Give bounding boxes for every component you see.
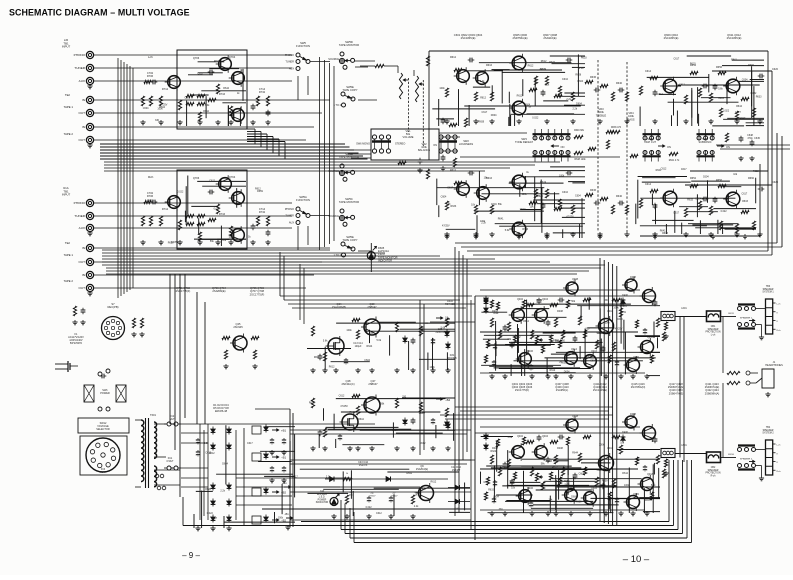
svg-text:Q418: Q418 bbox=[647, 473, 654, 476]
svg-text:C617: C617 bbox=[520, 208, 526, 211]
svg-text:C40: C40 bbox=[320, 491, 325, 493]
svg-text:R716: R716 bbox=[219, 92, 226, 96]
svg-text:330: 330 bbox=[155, 119, 160, 122]
svg-text:5.6k: 5.6k bbox=[204, 442, 209, 445]
svg-text:Q706: Q706 bbox=[193, 56, 200, 60]
svg-text:R640: R640 bbox=[616, 195, 623, 198]
svg-text:2.2k: 2.2k bbox=[573, 107, 578, 110]
svg-text:INDICATOR: INDICATOR bbox=[378, 258, 392, 262]
svg-text:2SB647: 2SB647 bbox=[368, 382, 378, 386]
svg-text:+B1: +B1 bbox=[282, 481, 287, 485]
svg-text:+B1: +B1 bbox=[281, 429, 286, 433]
svg-text:TAPE 2: TAPE 2 bbox=[64, 279, 74, 283]
svg-text:100k: 100k bbox=[439, 87, 445, 90]
svg-text:47/50V: 47/50V bbox=[369, 496, 376, 498]
svg-text:ON: ON bbox=[726, 145, 730, 149]
svg-text:TUNER: TUNER bbox=[74, 214, 85, 218]
svg-text:0.5A/T: 0.5A/T bbox=[100, 471, 107, 474]
svg-text:C612: C612 bbox=[376, 512, 382, 515]
svg-text:0.022: 0.022 bbox=[723, 109, 730, 112]
svg-text:0.5A/T: 0.5A/T bbox=[166, 460, 174, 463]
svg-text:R628: R628 bbox=[147, 200, 153, 203]
svg-text:R633: R633 bbox=[546, 460, 552, 463]
svg-text:SW6 MONO: SW6 MONO bbox=[356, 143, 370, 146]
svg-text:SW10: SW10 bbox=[728, 454, 735, 456]
svg-text:2SC1775(F): 2SC1775(F) bbox=[176, 289, 191, 293]
svg-text:2SC1775(F): 2SC1775(F) bbox=[515, 388, 529, 392]
svg-text:100µF: 100µF bbox=[355, 345, 362, 348]
svg-text:D604: D604 bbox=[576, 102, 582, 105]
svg-text:C612: C612 bbox=[657, 93, 663, 96]
svg-text:2SC945: 2SC945 bbox=[233, 325, 243, 329]
svg-text:R612: R612 bbox=[443, 424, 449, 427]
svg-text:IN: IN bbox=[82, 246, 85, 250]
svg-text:2.2k: 2.2k bbox=[566, 98, 571, 101]
svg-text:2.2k: 2.2k bbox=[545, 83, 550, 86]
svg-text:R633: R633 bbox=[581, 56, 587, 59]
svg-text:RD7.5EB: RD7.5EB bbox=[445, 303, 455, 306]
svg-text:R628: R628 bbox=[586, 356, 592, 359]
svg-text:TAPE MONITOR: TAPE MONITOR bbox=[339, 200, 359, 204]
svg-text:2SC1775(F): 2SC1775(F) bbox=[250, 292, 265, 296]
svg-text:ON: ON bbox=[667, 145, 671, 149]
svg-text:SPEAKER: SPEAKER bbox=[708, 328, 719, 331]
svg-text:D604: D604 bbox=[696, 197, 702, 200]
svg-text:D604: D604 bbox=[645, 499, 651, 502]
svg-text:R706: R706 bbox=[147, 194, 154, 198]
svg-text:Q404: Q404 bbox=[542, 435, 549, 438]
svg-text:47/25V: 47/25V bbox=[566, 216, 574, 219]
svg-text:R659: R659 bbox=[602, 480, 608, 483]
svg-text:R636 470: R636 470 bbox=[611, 127, 622, 129]
svg-text:– 10 –: – 10 – bbox=[623, 554, 650, 565]
svg-text:FUNCTION: FUNCTION bbox=[296, 198, 310, 202]
svg-text:100k: 100k bbox=[430, 366, 436, 369]
svg-text:0.022: 0.022 bbox=[177, 191, 184, 194]
svg-text:C610: C610 bbox=[562, 78, 569, 81]
svg-text:AUX: AUX bbox=[79, 226, 85, 230]
svg-text:R641: R641 bbox=[406, 472, 412, 475]
svg-text:R612: R612 bbox=[480, 96, 486, 99]
svg-text:C604: C604 bbox=[718, 97, 724, 100]
svg-text:C604: C604 bbox=[493, 496, 499, 499]
svg-text:SOURCE: SOURCE bbox=[328, 58, 339, 61]
svg-text:BASS: BASS bbox=[627, 117, 634, 121]
svg-text:C617: C617 bbox=[742, 193, 748, 196]
svg-text:5.6k: 5.6k bbox=[505, 229, 510, 232]
svg-text:Q408: Q408 bbox=[572, 415, 579, 418]
svg-text:R712: R712 bbox=[162, 207, 169, 211]
svg-text:L-ch: L-ch bbox=[711, 334, 716, 336]
svg-text:R644: R644 bbox=[358, 418, 364, 421]
svg-text:C604: C604 bbox=[617, 318, 623, 321]
svg-text:SUBSONIC: SUBSONIC bbox=[698, 141, 711, 144]
svg-text:R641 4.7k: R641 4.7k bbox=[669, 160, 680, 162]
svg-text:R628: R628 bbox=[214, 60, 220, 63]
svg-text:R622: R622 bbox=[491, 450, 497, 453]
svg-text:R612: R612 bbox=[528, 65, 534, 68]
svg-text:AUX: AUX bbox=[289, 222, 294, 225]
svg-text:Q420: Q420 bbox=[633, 493, 640, 496]
svg-text:SPEAKER 2: SPEAKER 2 bbox=[740, 457, 753, 460]
svg-text:R612: R612 bbox=[523, 320, 529, 323]
svg-text:R640: R640 bbox=[616, 82, 623, 85]
svg-text:Q704: Q704 bbox=[229, 55, 236, 59]
svg-text:0.022: 0.022 bbox=[207, 512, 214, 515]
svg-text:1 TO 2: 1 TO 2 bbox=[333, 254, 341, 257]
svg-text:Q706: Q706 bbox=[193, 176, 200, 180]
svg-text:2SB647A(E): 2SB647A(E) bbox=[669, 391, 684, 395]
svg-text:R612: R612 bbox=[329, 365, 335, 368]
svg-text:R659: R659 bbox=[576, 500, 582, 503]
svg-text:R633: R633 bbox=[742, 200, 748, 203]
svg-text:C604: C604 bbox=[703, 175, 709, 178]
svg-text:SPEAKER 1: SPEAKER 1 bbox=[740, 316, 753, 319]
svg-text:D604: D604 bbox=[159, 106, 165, 109]
svg-text:1 TO 2: 1 TO 2 bbox=[333, 104, 341, 107]
svg-text:47/25V: 47/25V bbox=[340, 405, 348, 408]
svg-text:C612: C612 bbox=[420, 442, 426, 445]
svg-text:C614: C614 bbox=[645, 70, 652, 73]
svg-text:2SB698A(A): 2SB698A(A) bbox=[705, 391, 720, 395]
svg-text:TAPE COPY: TAPE COPY bbox=[342, 88, 357, 92]
svg-text:R633: R633 bbox=[756, 95, 762, 98]
svg-text:TB3: TB3 bbox=[766, 286, 771, 288]
svg-text:OUT: OUT bbox=[78, 260, 85, 264]
svg-text:R622: R622 bbox=[549, 61, 555, 64]
svg-text:Q406: Q406 bbox=[527, 487, 534, 490]
svg-text:−B4: −B4 bbox=[445, 398, 450, 402]
svg-text:100k: 100k bbox=[559, 174, 565, 177]
svg-text:C617: C617 bbox=[681, 168, 687, 171]
svg-text:L.E.D.: L.E.D. bbox=[319, 497, 326, 499]
svg-text:47/25V: 47/25V bbox=[442, 224, 450, 227]
svg-text:R732: R732 bbox=[259, 210, 266, 214]
svg-text:SW11: SW11 bbox=[728, 313, 735, 315]
svg-text:R612: R612 bbox=[209, 452, 215, 455]
svg-text:R633: R633 bbox=[690, 62, 696, 65]
svg-text:C604: C604 bbox=[575, 195, 581, 198]
svg-text:330: 330 bbox=[561, 339, 566, 342]
svg-text:47/25V: 47/25V bbox=[171, 241, 179, 244]
svg-text:– 9 –: – 9 – bbox=[182, 551, 200, 560]
svg-text:0.022: 0.022 bbox=[214, 208, 221, 211]
svg-text:STEREO: STEREO bbox=[395, 143, 405, 146]
svg-text:R641: R641 bbox=[731, 59, 737, 62]
svg-text:PHONO: PHONO bbox=[285, 54, 294, 57]
svg-text:SPEAKER: SPEAKER bbox=[763, 429, 774, 432]
svg-text:AUX: AUX bbox=[289, 68, 294, 71]
svg-text:INDICATOR: INDICATOR bbox=[316, 501, 329, 504]
svg-text:TUNER: TUNER bbox=[285, 61, 294, 64]
svg-text:330: 330 bbox=[369, 332, 374, 335]
svg-text:Rch: Rch bbox=[148, 175, 154, 179]
svg-text:CB1: CB1 bbox=[711, 326, 716, 328]
svg-text:VOLUME: VOLUME bbox=[403, 135, 414, 139]
svg-text:PHONO: PHONO bbox=[285, 208, 294, 211]
svg-text:2SA844(E): 2SA844(E) bbox=[416, 468, 428, 471]
svg-text:330: 330 bbox=[483, 481, 488, 484]
svg-text:R659: R659 bbox=[620, 311, 626, 314]
svg-text:100k: 100k bbox=[278, 516, 284, 519]
svg-text:C612: C612 bbox=[209, 179, 215, 182]
svg-text:D406: D406 bbox=[622, 294, 628, 297]
svg-text:2SA950(L): 2SA950(L) bbox=[556, 388, 569, 392]
svg-text:2SK30A(C): 2SK30A(C) bbox=[341, 382, 354, 386]
svg-text:D408: D408 bbox=[630, 276, 636, 279]
svg-text:R644: R644 bbox=[419, 411, 425, 414]
svg-text:R616: R616 bbox=[486, 64, 493, 67]
svg-text:2.2k: 2.2k bbox=[414, 505, 419, 508]
svg-text:R732: R732 bbox=[259, 90, 266, 94]
svg-text:R659: R659 bbox=[564, 480, 570, 483]
svg-text:2SB647: 2SB647 bbox=[367, 305, 377, 309]
svg-text:FU3: FU3 bbox=[101, 469, 106, 471]
svg-text:REC(PB): REC(PB) bbox=[107, 305, 118, 309]
svg-text:R659: R659 bbox=[257, 190, 263, 193]
svg-text:SYSTEM 2: SYSTEM 2 bbox=[762, 433, 774, 435]
svg-text:R622: R622 bbox=[753, 170, 759, 173]
svg-text:330: 330 bbox=[585, 327, 590, 330]
svg-text:C604: C604 bbox=[524, 103, 530, 106]
svg-text:R649 68k: R649 68k bbox=[574, 130, 585, 132]
svg-text:C604: C604 bbox=[491, 203, 497, 206]
svg-text:TUNER: TUNER bbox=[74, 66, 85, 70]
svg-text:TAPE 2: TAPE 2 bbox=[64, 132, 74, 136]
svg-text:100k: 100k bbox=[605, 321, 611, 324]
svg-text:R633: R633 bbox=[687, 199, 693, 202]
svg-text:2SC1845(E): 2SC1845(E) bbox=[664, 36, 679, 40]
svg-text:C617: C617 bbox=[673, 212, 679, 215]
svg-text:C612: C612 bbox=[661, 167, 667, 170]
svg-text:2SC1845(E): 2SC1845(E) bbox=[461, 36, 476, 40]
svg-text:470p: 470p bbox=[747, 137, 753, 140]
svg-text:R633: R633 bbox=[488, 489, 494, 492]
svg-text:100k: 100k bbox=[613, 307, 619, 310]
svg-text:C617: C617 bbox=[482, 111, 488, 114]
svg-text:R612: R612 bbox=[431, 481, 437, 484]
svg-text:5.6k: 5.6k bbox=[718, 88, 723, 91]
svg-text:330: 330 bbox=[402, 395, 407, 398]
svg-text:R612: R612 bbox=[622, 472, 628, 475]
svg-text:C610: C610 bbox=[562, 191, 569, 194]
svg-text:AUX: AUX bbox=[79, 79, 85, 83]
svg-text:R644: R644 bbox=[537, 299, 543, 302]
svg-text:R712: R712 bbox=[162, 87, 169, 91]
svg-text:T601: T601 bbox=[150, 413, 156, 417]
svg-text:2.2k: 2.2k bbox=[579, 67, 584, 70]
svg-text:TAPE 1: TAPE 1 bbox=[64, 105, 74, 109]
svg-text:C612: C612 bbox=[597, 332, 603, 335]
svg-text:R656: R656 bbox=[716, 66, 723, 69]
svg-text:R612: R612 bbox=[450, 169, 457, 172]
svg-text:R716: R716 bbox=[219, 212, 226, 216]
svg-text:1S2473: 1S2473 bbox=[359, 464, 368, 467]
svg-text:Q704: Q704 bbox=[229, 175, 236, 179]
svg-text:C614: C614 bbox=[645, 183, 652, 186]
svg-text:C645: C645 bbox=[754, 137, 760, 140]
svg-text:C617: C617 bbox=[740, 117, 746, 120]
svg-text:ON: ON bbox=[433, 144, 437, 147]
svg-text:R622: R622 bbox=[515, 336, 521, 339]
svg-text:TAPE COPY: TAPE COPY bbox=[342, 238, 357, 242]
svg-text:D408: D408 bbox=[630, 413, 636, 416]
svg-text:R644: R644 bbox=[223, 87, 229, 90]
svg-text:R648 120k: R648 120k bbox=[574, 159, 586, 161]
svg-text:C617: C617 bbox=[674, 58, 680, 61]
svg-text:R408: R408 bbox=[557, 310, 563, 313]
svg-text:R-ch: R-ch bbox=[777, 471, 781, 473]
svg-text:C604: C604 bbox=[579, 473, 585, 476]
svg-text:C612: C612 bbox=[679, 84, 685, 87]
svg-text:L601: L601 bbox=[681, 307, 687, 310]
svg-text:IN: IN bbox=[82, 273, 85, 277]
svg-text:2SC1845(E): 2SC1845(E) bbox=[727, 36, 742, 40]
svg-text:Lch: Lch bbox=[148, 55, 153, 59]
svg-text:R641: R641 bbox=[498, 218, 504, 221]
svg-text:C617: C617 bbox=[247, 442, 253, 445]
svg-text:R622: R622 bbox=[309, 402, 315, 405]
svg-text:100k: 100k bbox=[392, 429, 398, 432]
svg-text:C617: C617 bbox=[292, 475, 298, 478]
svg-text:0.022: 0.022 bbox=[721, 210, 728, 213]
svg-text:R660: R660 bbox=[748, 177, 755, 180]
svg-text:R652: R652 bbox=[690, 177, 697, 180]
svg-text:100k: 100k bbox=[522, 193, 528, 196]
svg-text:C604: C604 bbox=[143, 107, 149, 110]
svg-text:C617: C617 bbox=[540, 68, 546, 71]
svg-text:INPUT: INPUT bbox=[62, 193, 71, 197]
svg-text:HIGH CUT: HIGH CUT bbox=[644, 141, 657, 144]
svg-text:D604: D604 bbox=[564, 371, 570, 374]
svg-text:TE2: TE2 bbox=[65, 241, 71, 245]
svg-text:C604: C604 bbox=[441, 196, 447, 199]
svg-text:BALANCE: BALANCE bbox=[418, 148, 430, 152]
svg-text:2.2k: 2.2k bbox=[220, 490, 225, 493]
svg-text:L-ch: L-ch bbox=[777, 304, 781, 306]
svg-text:SPEAKER: SPEAKER bbox=[708, 469, 719, 472]
svg-text:47/25V: 47/25V bbox=[419, 488, 427, 491]
svg-text:R633: R633 bbox=[555, 340, 561, 343]
svg-text:2.2k: 2.2k bbox=[326, 475, 331, 478]
svg-text:C617: C617 bbox=[198, 72, 204, 75]
svg-text:SPEAKER: SPEAKER bbox=[763, 288, 774, 291]
svg-text:C612: C612 bbox=[339, 394, 345, 397]
svg-text:47/25V: 47/25V bbox=[619, 305, 627, 308]
svg-text:5.6k: 5.6k bbox=[205, 104, 210, 107]
svg-text:100k: 100k bbox=[624, 484, 630, 487]
svg-text:R633: R633 bbox=[561, 361, 567, 364]
svg-text:R628: R628 bbox=[537, 195, 543, 198]
svg-text:R644: R644 bbox=[572, 451, 578, 454]
svg-text:R628: R628 bbox=[575, 74, 581, 77]
svg-text:C620: C620 bbox=[772, 68, 779, 71]
svg-text:R628: R628 bbox=[205, 488, 211, 491]
svg-text:Q408: Q408 bbox=[572, 278, 579, 281]
svg-text:R633: R633 bbox=[451, 205, 457, 208]
svg-text:2.2k: 2.2k bbox=[480, 80, 485, 83]
svg-text:ON: ON bbox=[561, 145, 565, 149]
svg-text:SYSTEM 1: SYSTEM 1 bbox=[762, 292, 774, 294]
svg-text:Q402: Q402 bbox=[517, 435, 524, 438]
svg-text:5.6k: 5.6k bbox=[441, 326, 446, 329]
svg-text:D406: D406 bbox=[622, 431, 628, 434]
svg-text:CB2: CB2 bbox=[711, 467, 716, 469]
svg-text:5.6k: 5.6k bbox=[651, 484, 656, 487]
svg-text:R636: R636 bbox=[590, 189, 597, 192]
svg-text:OUT: OUT bbox=[78, 286, 85, 290]
svg-text:ERC86-48: ERC86-48 bbox=[215, 409, 228, 413]
svg-text:Q404: Q404 bbox=[542, 298, 549, 301]
svg-text:TAPE 1: TAPE 1 bbox=[64, 253, 74, 257]
svg-text:R-ch: R-ch bbox=[777, 330, 781, 332]
svg-text:R641: R641 bbox=[314, 356, 320, 359]
svg-text:INPUT: INPUT bbox=[62, 45, 71, 49]
svg-text:D604: D604 bbox=[571, 496, 577, 499]
svg-text:TAPE MONITOR: TAPE MONITOR bbox=[339, 155, 359, 159]
svg-text:Q412: Q412 bbox=[571, 348, 578, 351]
svg-text:R408: R408 bbox=[557, 447, 563, 450]
svg-text:2SA916(E): 2SA916(E) bbox=[543, 36, 556, 40]
svg-text:FUNCTION: FUNCTION bbox=[296, 44, 310, 48]
svg-text:R641: R641 bbox=[502, 466, 508, 469]
svg-text:D604: D604 bbox=[491, 114, 497, 117]
svg-text:OUT: OUT bbox=[78, 111, 85, 115]
svg-text:PROTECTION: PROTECTION bbox=[705, 332, 720, 334]
svg-text:R659: R659 bbox=[478, 120, 484, 123]
svg-text:IN: IN bbox=[82, 125, 85, 129]
svg-text:R612: R612 bbox=[450, 56, 457, 59]
svg-text:2SA899(E): 2SA899(E) bbox=[212, 289, 225, 293]
svg-text:47/25V: 47/25V bbox=[615, 328, 623, 331]
svg-text:50Hz/60Hz: 50Hz/60Hz bbox=[70, 342, 83, 345]
svg-text:100k: 100k bbox=[599, 443, 605, 446]
svg-text:OUT: OUT bbox=[78, 138, 85, 142]
svg-text:R706: R706 bbox=[147, 74, 154, 78]
svg-text:R622: R622 bbox=[552, 466, 558, 469]
svg-text:0.022: 0.022 bbox=[532, 116, 539, 119]
svg-text:−B1: −B1 bbox=[281, 456, 286, 460]
svg-text:POWER: POWER bbox=[318, 499, 327, 501]
svg-text:TONE DEFEAT: TONE DEFEAT bbox=[515, 140, 533, 144]
svg-text:C604: C604 bbox=[590, 360, 596, 363]
svg-text:R612: R612 bbox=[541, 60, 547, 63]
svg-text:5.6k: 5.6k bbox=[508, 436, 513, 439]
svg-text:POWER: POWER bbox=[100, 392, 110, 395]
svg-text:C617: C617 bbox=[447, 186, 453, 189]
svg-text:R633: R633 bbox=[522, 228, 528, 231]
svg-text:5.6k: 5.6k bbox=[323, 339, 328, 342]
svg-text:2SA1006(B): 2SA1006(B) bbox=[332, 305, 346, 309]
svg-text:D604: D604 bbox=[222, 463, 228, 466]
svg-text:R641: R641 bbox=[350, 411, 356, 414]
svg-text:C604: C604 bbox=[742, 79, 748, 82]
svg-text:PROTECTION: PROTECTION bbox=[705, 473, 720, 475]
svg-text:2SD756A(E): 2SD756A(E) bbox=[512, 36, 527, 40]
svg-text:R636: R636 bbox=[590, 76, 597, 79]
svg-text:PHONO: PHONO bbox=[74, 53, 86, 57]
svg-text:2N4705A(N): 2N4705A(N) bbox=[631, 385, 646, 389]
svg-text:L-ch: L-ch bbox=[777, 445, 781, 447]
svg-text:5A/T: 5A/T bbox=[169, 418, 175, 421]
svg-text:TE2: TE2 bbox=[65, 93, 71, 97]
svg-text:TUNER: TUNER bbox=[285, 215, 294, 218]
svg-text:TAPE MONITOR: TAPE MONITOR bbox=[339, 43, 359, 47]
svg-text:100k: 100k bbox=[480, 220, 486, 223]
svg-text:100k: 100k bbox=[493, 312, 499, 315]
svg-text:R612: R612 bbox=[203, 110, 209, 113]
svg-text:PHONO: PHONO bbox=[74, 201, 86, 205]
